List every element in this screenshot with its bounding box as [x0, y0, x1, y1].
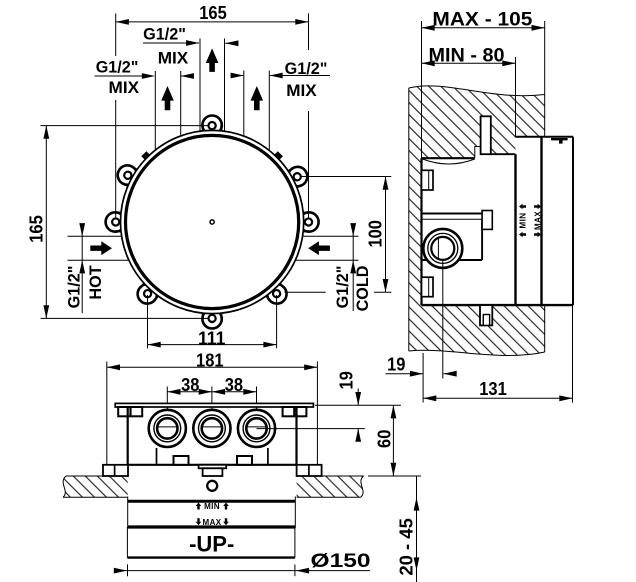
svg-text:G1/2": G1/2" — [143, 26, 186, 44]
MAX text (side view, rotated) — [534, 204, 543, 238]
svg-text:131: 131 — [479, 379, 507, 399]
svg-text:60: 60 — [375, 430, 395, 448]
wall front face line — [408, 88, 410, 351]
wall break line top — [409, 86, 545, 96]
flow arrow up (right MIX) — [251, 86, 264, 110]
dimension 100 vertical (right) — [285, 177, 392, 293]
COLD leader line with arrows — [350, 223, 356, 311]
wall section right (bottom view) — [297, 476, 364, 497]
HOT inlet port extent lines — [68, 235, 123, 237]
wall break line bottom — [409, 350, 545, 355]
label G1/2" MIX (top center port) — [143, 26, 239, 68]
inlet boss (side view) — [422, 211, 493, 261]
screw hole — [207, 481, 217, 491]
step line to plaster band — [491, 153, 516, 155]
front tab upper (side view) — [422, 170, 434, 190]
HOT flow arrow — [90, 241, 112, 255]
dome arc — [423, 159, 475, 164]
mounting ear lower-right — [263, 280, 290, 307]
svg-text:MIX: MIX — [109, 79, 140, 97]
dimension MIN-80 — [422, 45, 516, 137]
mounting plate (edge-on) — [115, 403, 313, 407]
center hole — [210, 220, 214, 224]
inner housing lines — [156, 448, 158, 465]
left hanger tab — [118, 407, 142, 416]
dimension 165 horizontal (top) — [116, 3, 309, 219]
svg-text:19: 19 — [387, 354, 405, 374]
svg-text:19: 19 — [337, 371, 357, 389]
svg-text:181: 181 — [196, 350, 224, 370]
svg-text:Ø150: Ø150 — [311, 550, 371, 572]
dimension 111 (bottom ears) — [148, 295, 277, 348]
box bottom edge — [422, 304, 574, 306]
MIN text (side view, rotated) — [519, 204, 528, 238]
svg-text:-UP-: -UP- — [189, 532, 234, 557]
rim nub left — [141, 151, 151, 161]
right port width lines — [243, 71, 245, 137]
inlet port circles (side view) — [423, 229, 462, 268]
mounting ear bottom — [202, 309, 221, 329]
svg-text:G1/2": G1/2" — [96, 59, 139, 77]
dome top line — [422, 157, 475, 159]
dimension 131 — [423, 305, 572, 402]
flow arrow up (center MIX) — [206, 48, 219, 72]
svg-text:MIX: MIX — [158, 49, 189, 67]
svg-text:165: 165 — [27, 215, 47, 243]
svg-text:HOT: HOT — [87, 265, 105, 299]
dimension 181 — [107, 350, 318, 474]
left port width lines — [154, 71, 156, 150]
plaster depth box (MIN/MAX) — [128, 497, 296, 528]
box top inner lip — [551, 138, 568, 140]
label G1/2" MIX (top right port) — [231, 60, 331, 100]
dimension 165 vertical (left) — [27, 126, 209, 319]
HOT leader line with arrows — [79, 223, 85, 313]
dimension 19 (plate to port axis) — [257, 371, 365, 442]
svg-text:MIN: MIN — [519, 213, 528, 229]
mounting ear upper-right — [284, 163, 310, 189]
top ear tab (side view) — [481, 116, 491, 154]
wall section (side view, hatched) — [409, 86, 545, 356]
svg-text:MIX: MIX — [286, 82, 317, 100]
svg-text:MAX: MAX — [534, 211, 543, 230]
svg-text:G1/2": G1/2" — [334, 266, 352, 309]
box top edge — [516, 136, 574, 138]
left wall ear tab — [103, 465, 128, 476]
COLD flow arrow — [308, 241, 330, 255]
svg-text:111: 111 — [198, 328, 226, 348]
port G1/2 center (bottom view) — [193, 410, 230, 447]
svg-text:38: 38 — [225, 375, 243, 395]
rim nub right — [272, 151, 282, 161]
port G1/2 left (bottom view) — [149, 410, 186, 447]
wall back edge upper — [544, 95, 546, 137]
body outer circle — [121, 130, 304, 313]
dimension diameter 150 — [114, 550, 371, 576]
svg-text:COLD: COLD — [354, 265, 372, 311]
step notch — [475, 147, 481, 159]
svg-text:G1/2": G1/2" — [65, 266, 83, 309]
right hanger tab — [283, 407, 307, 416]
housing body (bottom view) — [128, 407, 297, 465]
svg-text:20 - 45: 20 - 45 — [397, 518, 417, 576]
inner foot tab right — [237, 456, 252, 465]
dimensions 38 / 38 — [167, 375, 256, 427]
body inner rim circle — [126, 135, 299, 308]
mounting ear top — [202, 115, 221, 135]
svg-text:165: 165 — [199, 3, 227, 23]
dimension 60 — [315, 405, 401, 476]
right wall ear tab — [297, 465, 322, 476]
center nub — [199, 465, 227, 476]
mounting ear right 3 o'clock — [299, 212, 319, 231]
plaster band front line — [514, 154, 516, 305]
dimension 19 (side view) — [386, 353, 457, 403]
UP box — [127, 527, 295, 558]
wall back edge lower — [544, 305, 546, 352]
svg-text:38: 38 — [181, 375, 199, 395]
mounting ears (8) around body — [106, 115, 319, 328]
mounting ear upper-left — [114, 162, 140, 188]
svg-text:MIN: MIN — [204, 502, 220, 511]
box front edge (side view) — [420, 158, 422, 305]
svg-text:MIN - 80: MIN - 80 — [429, 45, 505, 67]
wall section left (bottom view) — [63, 476, 128, 497]
mounting ear left 9 o'clock — [106, 212, 126, 231]
dimension MAX-105 — [422, 8, 545, 158]
plaster band back line — [540, 137, 542, 305]
port G1/2 right (bottom view) — [238, 410, 275, 447]
mounting ear lower-left — [134, 280, 161, 307]
svg-text:MAX: MAX — [203, 518, 222, 527]
COLD inlet port extent lines — [303, 235, 359, 237]
dimension 20-45 — [368, 476, 421, 582]
label G1/2" MIX (top left port) — [95, 59, 195, 97]
box back edge — [572, 137, 574, 305]
svg-text:MAX - 105: MAX - 105 — [432, 8, 532, 30]
center port width lines — [199, 39, 201, 132]
flow arrow up (left MIX) — [161, 86, 174, 110]
port axis extension line — [442, 260, 444, 379]
inner foot tab left — [174, 456, 189, 465]
front tab lower (side view) — [422, 277, 434, 297]
svg-text:100: 100 — [366, 220, 386, 248]
bottom ear tab (side view) — [480, 305, 492, 325]
